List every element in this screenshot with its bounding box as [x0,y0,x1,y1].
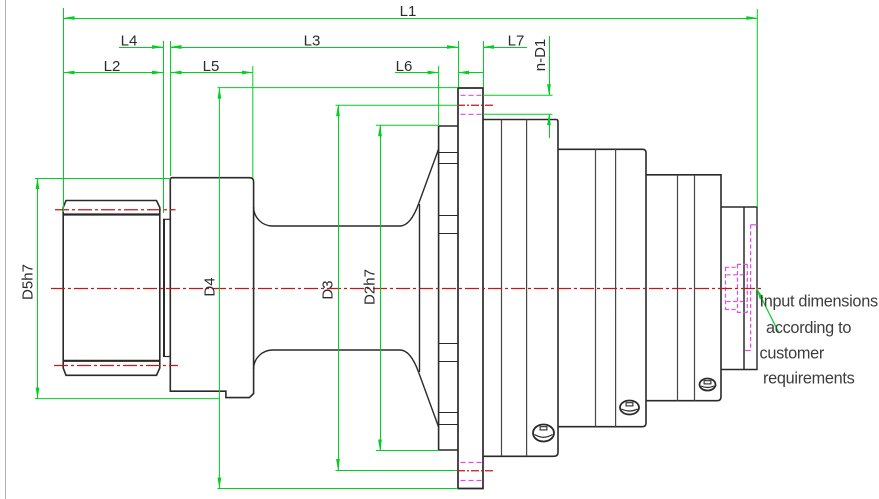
dimension L5 [171,72,253,74]
ring1 inner line a [501,120,503,457]
housing ring3 outline [646,175,721,401]
bolt hole centerline top [457,104,493,106]
plate inner line 233 [439,233,458,235]
plate inner line 163.5 [439,163,458,165]
extension line at shaft right end x=163 [163,41,165,213]
svg-text:D2h7: D2h7 [362,269,379,305]
keyway centerline top [55,209,176,211]
svg-text:requirements: requirements [763,370,855,388]
end cap inner line [743,207,745,370]
main centerline [51,288,762,290]
screw head on ring3 [700,379,716,391]
plate inner line 361 [439,361,458,363]
output shaft keyway top line [63,213,160,215]
shoulder disc outline [170,178,253,398]
dimension D3 bolt circle [336,104,459,106]
output shaft outline [63,201,160,376]
plate inner line 424 [439,424,458,426]
collar tick bottom [163,356,170,358]
end cap outline [721,207,757,370]
dimension L7 [483,47,527,49]
extension line at shoulder right x=252.8 [252,66,254,178]
svg-text:L7: L7 [508,33,525,50]
dimension D2h7 pilot [376,124,439,126]
ring3 inner line b [694,175,696,401]
svg-text:L5: L5 [203,58,220,75]
extension line at housing right end x=757.3 [756,9,758,207]
shaft collar left line [163,219,165,356]
hidden bolt hole top [461,94,484,96]
svg-text:customer: customer [760,344,825,362]
dimension L1 [64,18,758,20]
extension line at flange left x=458 [458,41,460,87]
mounting flange outline [458,88,483,489]
hidden input shaft face line [750,225,752,351]
svg-text:L6: L6 [396,58,413,75]
keyway centerline bottom [54,365,178,367]
svg-text:D4: D4 [202,277,219,296]
ring2 inner line b [615,149,617,426]
bolt hole centerline bottom [457,470,493,472]
output shaft keyway bottom line [63,360,160,362]
plate inner line 412.5 [439,412,458,414]
hidden input coupling bore [725,267,727,309]
dimension L4 [119,47,163,49]
extension line at flange right x=483 [483,41,485,87]
ring2 inner line a [595,149,597,426]
screw head on ring1 [533,425,554,442]
hidden bolt hole bottom [461,462,484,464]
extension line at shoulder left x=170.5 [170,41,172,176]
svg-text:Input dimensions: Input dimensions [760,293,878,311]
cone top diagonal [419,149,439,204]
svg-text:L3: L3 [304,33,321,50]
dimension L6 [395,72,439,74]
svg-text:L2: L2 [104,58,121,75]
housing ring1 outline [483,120,558,457]
front plate outline [439,126,458,450]
dimension n-D1 bolt hole [483,94,553,96]
middle shaft bottom edge [254,350,419,372]
cone bottom diagonal [419,372,439,427]
svg-text:according to: according to [766,319,851,337]
collar tick top [163,218,170,220]
extension line at shaft left end x=63.5 [63,8,65,212]
dimension D4 flange [218,87,459,89]
leader arrow to input shaft [757,288,764,299]
screw head on ring2 [620,401,639,415]
plate inner line 152 [439,152,458,154]
drawing border left edge [5,0,7,499]
plate inner line 343 [439,343,458,345]
svg-text:n-D1: n-D1 [532,39,549,72]
svg-text:L4: L4 [121,33,138,50]
ring3 inner line a [677,175,679,401]
dimension L3 [171,47,459,49]
cone face edge [419,204,421,372]
housing ring2 outline [558,149,646,426]
svg-text:L1: L1 [400,3,417,20]
svg-text:D3: D3 [320,280,337,299]
dimension D5h7 output shaft [35,178,170,180]
svg-text:D5h7: D5h7 [20,264,37,300]
ring1 inner line b [526,120,528,457]
dimension L2 [64,72,164,74]
middle shaft top edge [254,204,419,226]
plate inner line 215 [439,215,458,217]
extension line at plate left x=438.6 [438,66,440,125]
